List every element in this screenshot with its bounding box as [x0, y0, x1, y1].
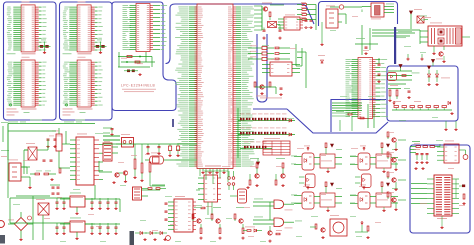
termination resistor chain — [392, 101, 454, 115]
IC3 supervisor — [262, 59, 300, 76]
wires region G — [332, 103, 374, 128]
pull-up resistor stack — [297, 2, 316, 30]
resistors row PSU — [30, 168, 61, 181]
IC label text — [63, 2, 93, 116]
AND gate G1 — [253, 199, 302, 211]
optocoupler OK1 — [294, 143, 342, 173]
jumper rows BSL — [248, 45, 290, 60]
caps pair C3 C4 — [168, 144, 179, 157]
relay block K1 — [362, 3, 394, 19]
memory IC — [63, 5, 103, 52]
filter caps row 1 — [55, 198, 117, 210]
memory IC — [7, 60, 47, 107]
caps row in JTAG box — [414, 149, 429, 164]
power wire bundle — [372, 30, 420, 44]
region box C (CPLD column) — [112, 2, 176, 111]
series resistors JTAG — [416, 144, 440, 147]
optocoupler OK6 — [355, 174, 371, 188]
resistor array RN1 — [118, 52, 155, 76]
wires mid peripheral verticals — [296, 44, 306, 88]
resistor pair R20 R21 — [228, 171, 235, 190]
diode near region F edge — [318, 22, 325, 63]
caps stack C30 — [50, 185, 60, 194]
memory IC — [7, 5, 47, 52]
grounds above region E — [406, 54, 443, 66]
net label below box B — [64, 121, 74, 124]
transistor columns bottom middle — [192, 207, 245, 239]
regulator U3 1117-3.3 — [60, 193, 95, 215]
region box (memory bank) — [4, 2, 57, 120]
3.3V rail — [8, 120, 95, 161]
optocoupler OK4 — [350, 182, 398, 212]
DIP switch SW1 — [103, 143, 118, 161]
driver transistors column — [387, 132, 406, 211]
screen artifact bottom bar — [130, 231, 135, 245]
board title text — [121, 84, 156, 93]
diode resistor pair bottom — [243, 227, 262, 233]
reset transistor Q2 — [112, 171, 127, 184]
left edge wire — [1, 122, 9, 157]
PSU rails — [10, 185, 120, 224]
RTC IC2 8-pin — [278, 15, 313, 31]
IC5 address latch — [123, 4, 168, 52]
region diagonal boundary — [287, 109, 388, 133]
TVS diode array row 3 — [240, 142, 272, 149]
RS232 transceiver IC7 — [165, 196, 197, 232]
green dashes left of terminal — [420, 16, 427, 21]
wires into JTAG box — [410, 142, 420, 153]
JTAG connector CON1 — [427, 175, 459, 229]
region H outline (JTAG box) — [410, 145, 470, 233]
IC6 buffer column — [346, 58, 388, 119]
bus stub navy — [172, 119, 174, 127]
fuse F1 — [330, 5, 362, 24]
ICSP connector — [230, 186, 250, 203]
wires left of connector — [411, 184, 427, 204]
region G outline — [331, 100, 386, 133]
crystal oscillator circuit Q1 — [262, 3, 284, 40]
AND gate G2 — [253, 217, 302, 229]
decoupling diodes — [94, 40, 107, 54]
power connector J1 — [8, 160, 30, 182]
wires above IC6 — [355, 25, 378, 55]
VR1 regulator — [16, 196, 50, 240]
vcc marks bottom — [355, 222, 370, 239]
memory IC — [63, 60, 103, 107]
power jack PWR — [326, 6, 338, 29]
buzzer circuit — [310, 215, 347, 239]
optocoupler OK5 — [299, 174, 315, 188]
grounds below region E — [444, 121, 457, 131]
main crystal Q3 — [145, 153, 170, 165]
BSL button — [103, 128, 134, 147]
IC8 in JTAG box — [437, 141, 468, 164]
opto row 1 region E — [388, 65, 451, 86]
wires right of CPU top — [254, 6, 262, 30]
vcc flag below arrays — [257, 158, 260, 165]
screen artifact bottom left — [0, 235, 5, 244]
bus line navy — [394, 27, 396, 64]
gate junction wire — [269, 202, 271, 220]
crossed protection device — [417, 16, 431, 23]
jumper table — [263, 138, 290, 155]
region D boundary channel — [166, 4, 315, 64]
wire harness below CPU — [103, 136, 165, 190]
LED indicator row — [135, 232, 170, 241]
ground symbols JTAG left — [414, 167, 424, 170]
IC label text — [7, 2, 37, 116]
decoupling diodes — [38, 40, 51, 54]
pull resistors column — [133, 144, 151, 182]
small IC U10 — [198, 171, 228, 215]
bridge rectifier B1 — [8, 212, 33, 241]
region bottom edge — [253, 108, 287, 110]
filter caps row 2 — [55, 223, 117, 235]
region boundary U channel — [257, 34, 267, 102]
resistor row 2 region E — [388, 85, 411, 102]
ground symbols under U1 — [201, 169, 225, 174]
svg-text:LPC-E2294/NELB: LPC-E2294/NELB — [121, 84, 156, 88]
connector J2 small — [133, 187, 149, 200]
JTAG right verticals — [455, 179, 457, 198]
caps right of IC6 — [377, 58, 380, 83]
region box (memory bank) — [60, 2, 113, 120]
TVS diode array row 1 — [238, 108, 295, 158]
inductor L1 — [52, 128, 62, 158]
power IC U2 regulator — [70, 134, 103, 186]
opto area wires — [291, 156, 356, 204]
TVS diode array row 2 — [238, 128, 295, 137]
load caps C1 C2 — [146, 144, 160, 155]
caps cluster power — [43, 139, 57, 161]
region E outline — [387, 66, 458, 121]
crystal X1 power — [24, 143, 42, 160]
regulator U4 1117-1.8 — [60, 218, 95, 240]
artifact red dot — [0, 221, 4, 228]
optocoupler OK2 — [350, 143, 398, 173]
reset label text — [260, 97, 282, 100]
PSU wire mesh — [8, 124, 120, 199]
transistor circuit TR1 — [249, 158, 259, 187]
microcontroller U1 LPC2294 — [175, 4, 254, 169]
wires to CPU bottom — [103, 133, 197, 186]
optocoupler OK3 — [294, 182, 342, 212]
resistors R30 R31 — [142, 188, 166, 190]
net label below box A — [8, 121, 18, 124]
vcc arrow flag — [410, 9, 423, 29]
transistor circuit TR2 — [275, 158, 285, 187]
wires below CPU — [196, 169, 228, 191]
reset transistor cluster — [254, 82, 283, 96]
terminal block relay — [420, 23, 470, 63]
region F outline — [319, 2, 398, 27]
transistor Q5 bottom — [268, 226, 282, 242]
parts right of connector — [459, 185, 466, 205]
region G extra wires — [332, 113, 356, 131]
